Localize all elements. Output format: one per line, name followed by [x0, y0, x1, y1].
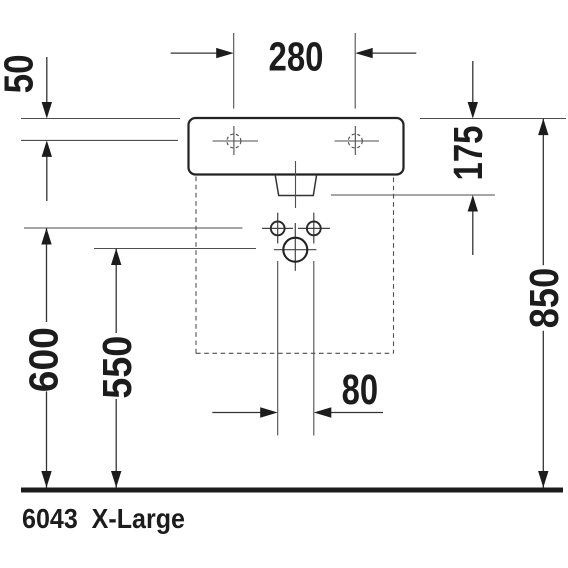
left fixing hole crosshair [262, 213, 293, 244]
dim 280 right extension line [354, 33, 356, 109]
trapezoid centerline [295, 161, 297, 208]
right tap hole dashed circle [348, 134, 362, 148]
dim 600 extension line [24, 227, 243, 229]
floor line [21, 488, 563, 493]
svg-text:550: 550 [94, 336, 140, 399]
waste hole circle [283, 238, 307, 262]
dim 80 left arrow [212, 407, 277, 417]
svg-text:850: 850 [521, 268, 567, 329]
dim 850 lower arrow [538, 331, 548, 488]
svg-text:80: 80 [342, 367, 379, 414]
dim 550 lower arrow [111, 399, 121, 488]
waste hole crosshair [274, 223, 317, 271]
dim 600 lower arrow [41, 391, 51, 487]
right fixing hole circle [307, 222, 321, 236]
left fixing hole circle [271, 222, 285, 236]
svg-text:50: 50 [0, 54, 42, 93]
dim 550 upper arrow [111, 249, 121, 334]
hidden outline dashed left edge [195, 177, 197, 354]
hidden outline dashed right edge [393, 178, 395, 354]
dim 50 lower extension line [21, 139, 178, 141]
dim 50 upper arrow [42, 57, 52, 119]
washbasin body outline [189, 118, 404, 175]
svg-text:600: 600 [20, 327, 66, 392]
dim 50 lower arrow [42, 140, 52, 201]
svg-text:175: 175 [445, 126, 491, 181]
left tap hole dashed circle [227, 134, 241, 148]
dim 175 lower arrow [468, 195, 478, 255]
hidden outline dashed bottom edge [196, 352, 394, 354]
dim 280 left arrow [171, 48, 234, 58]
dim 600 upper arrow [41, 228, 51, 322]
dim 550 extension line [94, 248, 256, 250]
drain outlet trapezoid [275, 176, 316, 196]
dim 175 upper extension line [420, 118, 566, 120]
dim 50 upper extension line [21, 118, 180, 120]
right fixing hole crosshair [298, 213, 330, 244]
dim 280 left extension line [233, 33, 235, 109]
left tap hole crosshair [213, 126, 259, 155]
right tap hole crosshair [335, 126, 380, 155]
svg-text:280: 280 [269, 34, 324, 80]
svg-text:6043 X-Large: 6043 X-Large [22, 503, 185, 534]
dim 80 left extension line [277, 261, 279, 436]
dim 80 right arrow [314, 407, 383, 417]
dim 280 right arrow [355, 48, 416, 58]
dim 175 upper arrow [468, 61, 478, 119]
dim 175 lower extension line [331, 194, 495, 196]
dim 80 right extension line [313, 261, 315, 436]
dim 850 upper arrow [538, 119, 548, 266]
